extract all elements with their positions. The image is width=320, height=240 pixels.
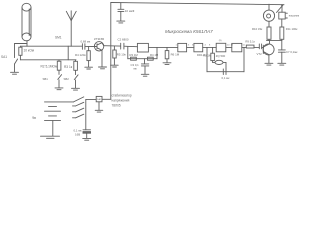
- wire: [203, 46, 217, 48]
- pin numbers: [176, 40, 246, 47]
- stabilizer DA1: [86, 96, 111, 112]
- svg-text:12: 12: [231, 44, 234, 46]
- svg-text:R3 1к: R3 1к: [64, 65, 73, 69]
- capacitor C2: [121, 43, 138, 49]
- switch SB2: [72, 75, 80, 90]
- svg-text:ZQ 500: ZQ 500: [216, 54, 226, 58]
- capacitor C1: [82, 44, 97, 50]
- svg-text:R10 33к: R10 33к: [252, 27, 263, 31]
- svg-text:SA1: SA1: [1, 55, 7, 59]
- quartz loop: [207, 47, 244, 71]
- top +V rail: [111, 3, 284, 5]
- wire below switch: [14, 64, 16, 72]
- svg-text:4: 4: [205, 44, 207, 46]
- resistor R5: [111, 46, 119, 67]
- svg-text:9в: 9в: [32, 116, 36, 120]
- resistor R1: [19, 46, 22, 60]
- capacitor C3 to ground: [141, 59, 149, 76]
- gate DD1.4: [216, 43, 226, 52]
- earphone BF1: [279, 5, 288, 19]
- svg-text:мк: мк: [134, 67, 138, 71]
- svg-text:16В: 16В: [75, 132, 80, 136]
- wire: [187, 46, 194, 48]
- svg-text:R5 10к: R5 10к: [117, 52, 127, 56]
- svg-text:0,68 мк: 0,68 мк: [81, 40, 91, 44]
- svg-text:3: 3: [188, 44, 190, 46]
- svg-text:R2 5,1МОм: R2 5,1МОм: [41, 65, 58, 69]
- svg-text:R6 1М: R6 1М: [171, 53, 180, 57]
- svg-text:R11 100к: R11 100к: [286, 27, 298, 31]
- svg-text:8: 8: [209, 44, 211, 46]
- svg-text:78Л05: 78Л05: [112, 104, 121, 108]
- wire from rod to main line: [26, 41, 28, 47]
- resistor R10: [267, 21, 271, 40]
- collector line to C2: [104, 45, 121, 47]
- node branch to bus: [67, 46, 69, 60]
- svg-text:10 мкФ: 10 мкФ: [125, 9, 135, 13]
- svg-text:R9 5,1к: R9 5,1к: [245, 40, 255, 44]
- resistor R2: [57, 60, 61, 75]
- svg-text:SМ1: SМ1: [55, 36, 62, 40]
- +V rail vertical: [110, 3, 112, 100]
- main signal line: [21, 45, 83, 47]
- svg-text:R4 1М: R4 1М: [150, 53, 159, 57]
- svg-text:VТ2: VТ2: [257, 52, 263, 56]
- svg-text:SВ1: SВ1: [43, 77, 49, 81]
- adjust arrow: [277, 5, 284, 13]
- svg-text:SВ2: SВ2: [64, 77, 70, 81]
- switch SB1: [55, 75, 63, 90]
- wire: [226, 46, 232, 48]
- wire DD1.1 out: [148, 46, 177, 48]
- capacitor C7 to ground: [278, 41, 286, 66]
- capacitor C6: [254, 44, 263, 49]
- capacitor C9 electrolytic: [83, 130, 91, 140]
- feedback loop around DD1.1: [128, 46, 157, 60]
- battery GB1: [41, 107, 61, 139]
- gate DD1.1: [137, 43, 148, 52]
- gate DD1.2: [178, 43, 187, 51]
- svg-text:КТ315Б: КТ315Б: [94, 37, 104, 41]
- resistor R3: [74, 60, 78, 75]
- svg-text:напряжения: напряжения: [112, 99, 130, 103]
- svg-text:R8 1М: R8 1М: [203, 53, 212, 57]
- resistor R4 base bias: [85, 47, 93, 69]
- svg-text:1: 1: [176, 44, 178, 46]
- ground below SA1: [11, 72, 19, 74]
- svg-text:наушник: наушник: [289, 14, 300, 17]
- quartz ZQ1: [215, 60, 226, 69]
- svg-text:R3 1М: R3 1М: [130, 53, 139, 57]
- svg-text:11: 11: [243, 44, 246, 46]
- capacitor C8 in loop: [223, 69, 226, 75]
- ganged switch SA1: [73, 97, 86, 130]
- resistor R8: [211, 47, 215, 62]
- svg-text:С7 0,1мк: С7 0,1мк: [286, 50, 298, 54]
- antenna WA1: [66, 11, 76, 46]
- resistor R6: [163, 47, 171, 64]
- resistor R9: [244, 46, 246, 48]
- svg-text:Микросхема К561ЛА7: Микросхема К561ЛА7: [165, 29, 213, 34]
- capacitor C5 to ground: [117, 3, 125, 23]
- telescopic antenna rod: [22, 3, 31, 41]
- wire branch to switch SA1: [15, 44, 28, 58]
- wire battery to switch: [45, 101, 74, 103]
- svg-text:R4 120к: R4 120к: [75, 53, 86, 57]
- svg-text:С2 6800: С2 6800: [118, 37, 129, 41]
- gate DD1.3: [194, 43, 203, 51]
- svg-text:DА1: DА1: [97, 98, 102, 101]
- svg-text:стабилизатор: стабилизатор: [112, 94, 132, 98]
- transistor VT2: [263, 41, 274, 66]
- switch SA1 lever: [15, 59, 18, 64]
- svg-text:(9): (9): [219, 40, 222, 42]
- wire: [242, 46, 244, 48]
- resistor R11: [280, 19, 284, 41]
- svg-text:0,1 мк: 0,1 мк: [222, 76, 231, 80]
- gate DD1.5: [232, 43, 242, 51]
- phone BA1: [263, 4, 274, 21]
- lower bus wire: [20, 59, 76, 61]
- collector node line: [267, 40, 282, 42]
- svg-text:10 кОм: 10 кОм: [24, 49, 35, 53]
- transistor VT1: [94, 42, 106, 69]
